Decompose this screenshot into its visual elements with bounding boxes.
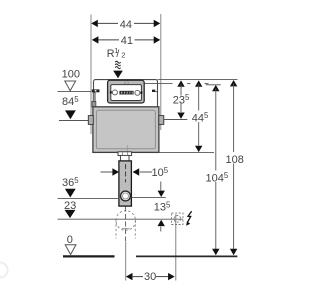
dim 13.5 vertical: [160, 182, 162, 191]
104.5 datum short line: [206, 84, 221, 86]
svg-text:44: 44: [120, 19, 132, 31]
svg-text:30: 30: [144, 271, 156, 283]
right supply fitting: [152, 90, 158, 92]
electrical connection box: [172, 213, 183, 224]
tank bottom level line: [159, 152, 214, 154]
dim 23.5 vertical: [177, 80, 184, 86]
dim 108 vertical: [230, 80, 237, 86]
svg-text:100: 100: [62, 69, 80, 81]
left supply fitting: [92, 89, 100, 107]
flush valve flange: [118, 152, 132, 156]
frame (mounting box): [94, 80, 158, 114]
water waves symbol: [115, 61, 120, 68]
svg-text:108: 108: [226, 154, 244, 166]
floor line thick: [63, 255, 115, 257]
dim 104.5 vertical: [212, 85, 219, 91]
wire: right extension line: [160, 14, 162, 130]
top reference line to 108: [158, 79, 238, 81]
pipe centerline below: [125, 207, 127, 243]
bracket level line right: [164, 119, 188, 121]
supply down arrow: [113, 71, 123, 79]
dashed outlet circle below: [116, 211, 136, 231]
wire: left wall extension line: [90, 15, 92, 135]
dim 10.5 horizontal: [101, 171, 113, 173]
floor line right: [136, 255, 237, 257]
pipe outlet circle: [121, 191, 131, 201]
dim 41 line: [93, 39, 119, 41]
flush pipe: [119, 161, 131, 206]
leader from panel top (dash-dot): [144, 83, 173, 85]
wall bracket left: [88, 116, 93, 125]
dim 44 line: [93, 22, 119, 24]
access panel: [108, 80, 145, 103]
electrical line down: [175, 214, 177, 280]
wall bracket right: [159, 116, 164, 125]
svg-text:2: 2: [121, 51, 125, 60]
svg-text:41: 41: [121, 35, 133, 47]
watermark arc bottom-left: [0, 263, 8, 278]
svg-text:/: /: [116, 48, 119, 60]
dim 44.5 vertical: [195, 80, 202, 86]
dim 30 bottom: [126, 273, 133, 280]
outlet center level line: [132, 196, 166, 198]
lightning bolt: [187, 211, 191, 222]
cistern tank: [93, 107, 159, 153]
